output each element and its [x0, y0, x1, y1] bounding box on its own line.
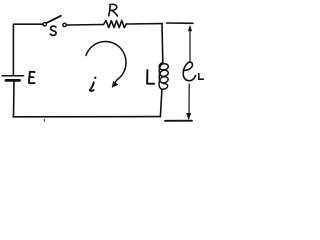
label E [29, 72, 35, 83]
label eL [183, 62, 203, 81]
wire top-right bar [167, 22, 194, 24]
voltage arrow eL bottom [186, 84, 191, 120]
wire resistor-to-corner [126, 23, 162, 25]
current arrow i [86, 41, 126, 87]
wire top-left segment [13, 24, 43, 75]
resistor R [104, 21, 127, 28]
label i [90, 77, 97, 91]
switch S [43, 16, 66, 27]
stray mark [43, 119, 45, 121]
wire bottom-right bar [165, 120, 192, 122]
wire switch-to-resistor [66, 24, 103, 27]
inductor L [159, 63, 168, 90]
wire inductor top lead [161, 24, 164, 63]
label R [109, 4, 118, 16]
battery E [2, 76, 23, 117]
voltage arrow eL top [188, 25, 192, 61]
label L [147, 70, 154, 84]
wire inductor bottom lead [160, 90, 162, 117]
wire bottom [13, 116, 161, 118]
label S [50, 26, 56, 35]
